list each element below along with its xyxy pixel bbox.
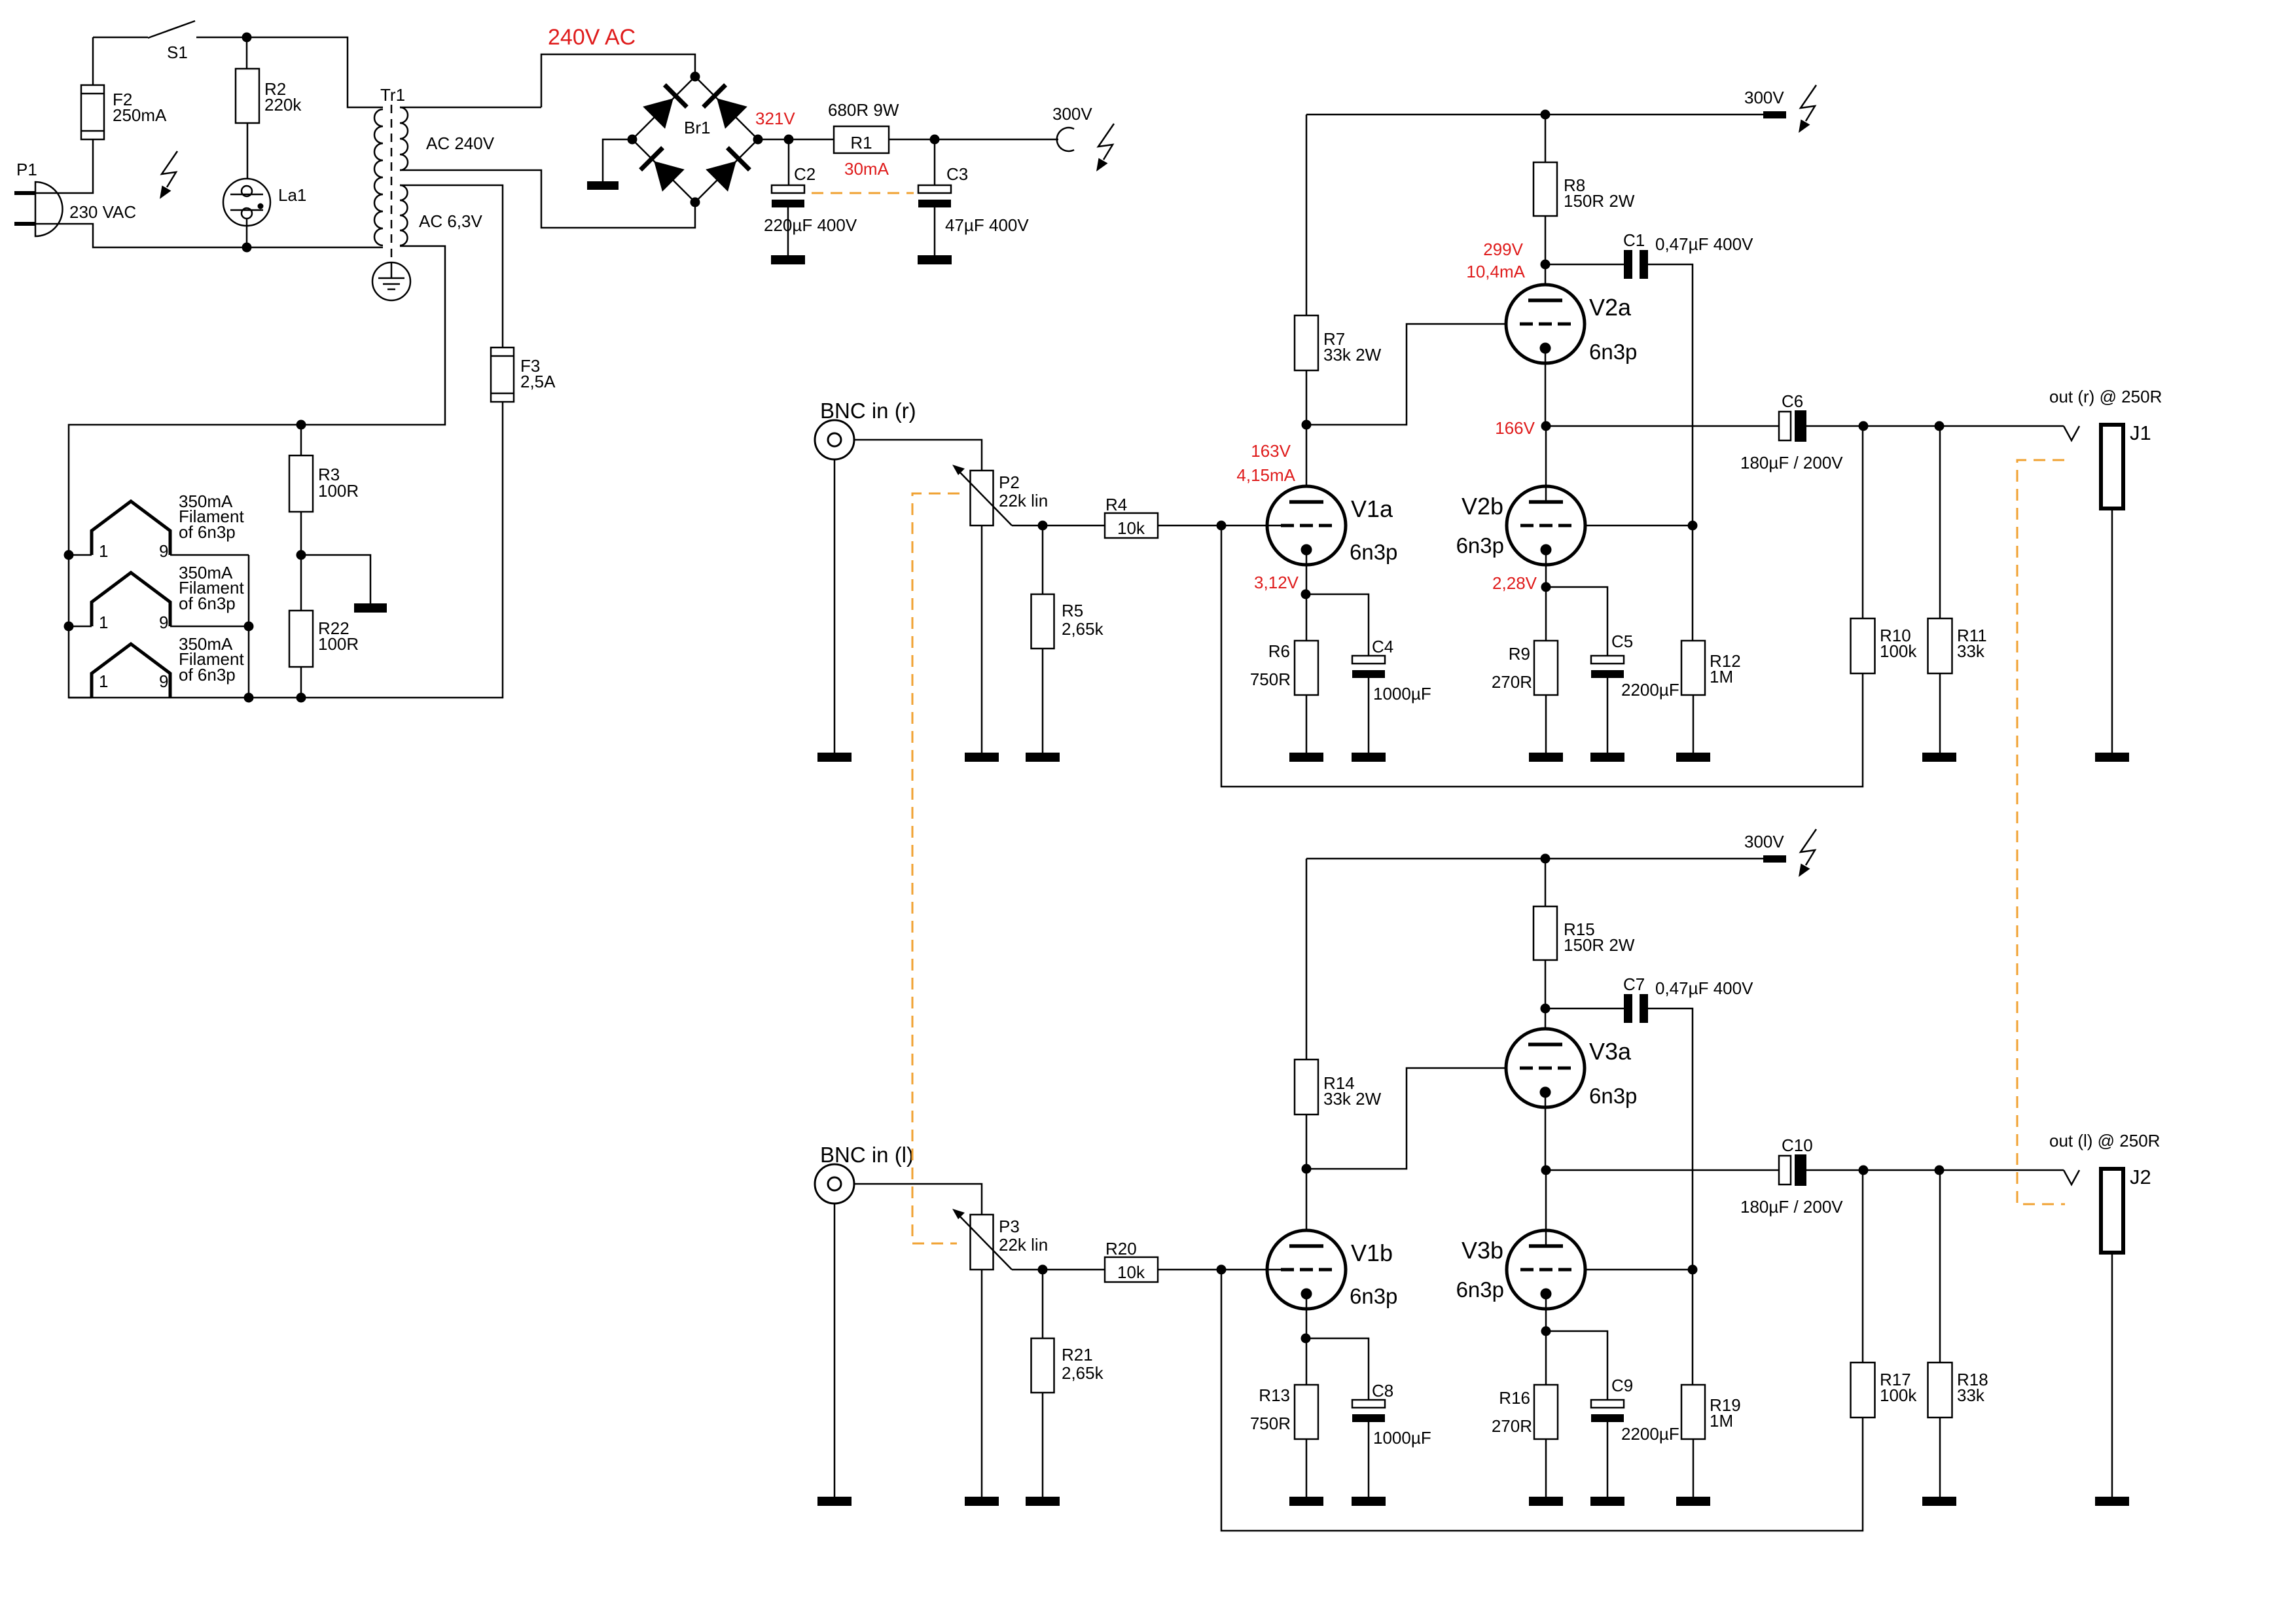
- transformer Tr1 secondary AC 240V winding: [400, 107, 408, 170]
- resistor R8: [1534, 162, 1557, 216]
- svg-text:2200µF: 2200µF: [1621, 1424, 1679, 1444]
- svg-text:300V: 300V: [1052, 104, 1092, 124]
- junction V3b grid/R19: [1688, 1265, 1698, 1275]
- wire V3b cathode: [1545, 1293, 1547, 1331]
- lamp La1: [223, 179, 270, 226]
- wire C10 to output: [1806, 1169, 2064, 1171]
- wire neutral bus: [35, 224, 383, 247]
- svg-text:of 6n3p: of 6n3p: [179, 594, 236, 613]
- connector out left: [2064, 1170, 2079, 1185]
- wire to R12: [1692, 526, 1694, 641]
- svg-text:47µF 400V: 47µF 400V: [945, 215, 1029, 235]
- diode Br1 bottom-left: [641, 148, 685, 192]
- junction heater left bus 2: [64, 622, 74, 632]
- wire R16 to ground: [1545, 1439, 1547, 1497]
- wire R7 to V1a anode: [1306, 370, 1308, 502]
- chassis link C2-C3 dashed: [812, 192, 914, 194]
- wire La1 to neutral bus: [246, 219, 248, 247]
- wire AC240V bottom to bridge: [400, 170, 695, 228]
- junction R10: [1859, 421, 1869, 431]
- svg-text:V3a: V3a: [1589, 1038, 1632, 1065]
- svg-text:270R: 270R: [1492, 1416, 1532, 1436]
- svg-text:10k: 10k: [1117, 518, 1145, 538]
- transformer Tr1 primary winding: [374, 109, 383, 245]
- ground P2: [965, 753, 999, 762]
- svg-text:6n3p: 6n3p: [1456, 1277, 1504, 1302]
- ground C3: [918, 255, 952, 264]
- svg-text:0,47µF 400V: 0,47µF 400V: [1655, 234, 1753, 254]
- svg-text:300V: 300V: [1744, 88, 1784, 107]
- wire R1 to 300V: [889, 139, 1058, 141]
- ground C4: [1352, 753, 1386, 762]
- wire grid feed V2b: [1571, 525, 1693, 527]
- ground R5: [1026, 753, 1060, 762]
- svg-text:9: 9: [159, 541, 168, 561]
- wire R5 to ground: [1042, 649, 1044, 753]
- junction R3/R22: [296, 550, 306, 560]
- svg-text:299V: 299V: [1483, 240, 1523, 259]
- svg-text:6n3p: 6n3p: [1456, 533, 1504, 558]
- junction V3a anode/C7: [1541, 1004, 1551, 1014]
- protective earth symbol: [372, 262, 410, 300]
- svg-text:2,28V: 2,28V: [1492, 573, 1537, 593]
- diode Br1 bottom-right: [706, 148, 749, 192]
- svg-text:1: 1: [99, 541, 108, 561]
- svg-text:1000µF: 1000µF: [1373, 684, 1431, 704]
- svg-text:J2: J2: [2130, 1166, 2151, 1188]
- svg-text:out (r) @ 250R: out (r) @ 250R: [2049, 387, 2162, 406]
- wire to C7: [1545, 1008, 1624, 1010]
- wire J1 to ground: [2111, 508, 2113, 753]
- svg-text:BNC in (r): BNC in (r): [820, 399, 916, 423]
- wire J2 to ground: [2111, 1253, 2113, 1497]
- junction V2b cathode: [1541, 582, 1551, 592]
- svg-text:S1: S1: [167, 43, 188, 62]
- wire to R6: [1306, 594, 1308, 641]
- svg-text:R6: R6: [1268, 641, 1290, 661]
- wiper arrow P2: [952, 465, 1012, 526]
- resistor R1: [834, 126, 889, 153]
- wire to R18: [1939, 1170, 1941, 1363]
- wire to C9: [1546, 1331, 1607, 1400]
- svg-text:C3: C3: [946, 164, 968, 184]
- node top AC live wire: [93, 37, 383, 107]
- svg-text:C4: C4: [1372, 637, 1393, 656]
- bolt 300V rail right: [1799, 85, 1816, 133]
- wire V3b anode: [1545, 1170, 1547, 1246]
- svg-text:C5: C5: [1611, 632, 1633, 651]
- wire output to C6: [1546, 425, 1779, 427]
- svg-text:V2b: V2b: [1462, 493, 1503, 520]
- output ground link dashed: [2017, 460, 2065, 1204]
- resistor R5: [1031, 594, 1054, 649]
- connector out right: [2064, 426, 2079, 440]
- wire BNC to P2: [854, 440, 982, 471]
- svg-text:P1: P1: [16, 160, 37, 179]
- wire feedback right: [1221, 526, 1863, 787]
- transformer Tr1 core: [391, 105, 393, 262]
- wire BNC ground: [834, 1204, 836, 1497]
- svg-text:R5: R5: [1062, 601, 1083, 620]
- junction V1b anode/V3a grid: [1302, 1164, 1312, 1174]
- junction heater left bus 1: [64, 550, 74, 560]
- svg-text:30mA: 30mA: [844, 159, 889, 179]
- junction R17: [1859, 1166, 1869, 1175]
- junction rail R15: [1541, 854, 1551, 864]
- wire C9 to ground: [1607, 1422, 1609, 1497]
- junction S1/R2: [242, 33, 252, 43]
- junction V1b grid/feedback: [1217, 1265, 1227, 1275]
- svg-text:180µF / 200V: 180µF / 200V: [1740, 1197, 1843, 1217]
- wire grid feed V3b: [1571, 1269, 1693, 1271]
- svg-text:220µF 400V: 220µF 400V: [764, 215, 857, 235]
- svg-text:C8: C8: [1372, 1381, 1393, 1400]
- svg-text:R13: R13: [1259, 1385, 1290, 1405]
- wire to C1: [1545, 264, 1624, 266]
- wire to R21: [1042, 1270, 1044, 1338]
- resistor R2: [236, 69, 259, 123]
- svg-text:9: 9: [159, 671, 168, 691]
- svg-text:163V: 163V: [1251, 441, 1291, 461]
- resistor R6: [1295, 641, 1318, 695]
- junction V1a grid/feedback: [1217, 521, 1227, 531]
- wire wiper to R20: [1012, 1269, 1105, 1271]
- junction R22 bottom: [296, 693, 306, 703]
- ground C2: [771, 255, 805, 264]
- triode V2a 6n3p: [1506, 285, 1585, 363]
- svg-text:750R: 750R: [1250, 669, 1291, 689]
- svg-text:100k: 100k: [1880, 1385, 1917, 1405]
- wire C5 to ground: [1607, 678, 1609, 753]
- wire BNC to P3: [854, 1184, 982, 1215]
- wiper arrow P3: [952, 1209, 1012, 1270]
- resistor R22: [289, 611, 313, 667]
- resistor R16: [1534, 1385, 1558, 1439]
- wire C8 to ground: [1368, 1422, 1370, 1497]
- capacitor C5: [1591, 656, 1624, 678]
- ground filament chassis: [354, 603, 387, 613]
- wire to R11: [1939, 426, 1941, 618]
- ground R16: [1529, 1497, 1563, 1506]
- svg-text:R20: R20: [1105, 1239, 1137, 1258]
- ground BNC left: [817, 1497, 852, 1506]
- junction R3 top: [296, 420, 306, 430]
- junction V2b grid/R12: [1688, 521, 1698, 531]
- svg-text:33k: 33k: [1957, 641, 1985, 661]
- svg-text:180µF / 200V: 180µF / 200V: [1740, 453, 1843, 473]
- wire to C2: [788, 139, 790, 185]
- wire V1b cathode: [1306, 1293, 1308, 1338]
- junction heater bus bottom: [244, 693, 254, 703]
- wire to R17: [1862, 1170, 1864, 1363]
- wire to C3: [934, 139, 936, 185]
- terminal 300V rail right: [1763, 111, 1786, 118]
- wire bridge left to ground: [603, 139, 632, 181]
- junction R11: [1935, 421, 1945, 431]
- wire R3: [300, 425, 302, 555]
- wire to R10: [1862, 426, 1864, 618]
- svg-text:C1: C1: [1623, 230, 1645, 250]
- bolt 300V PSU: [1096, 124, 1114, 171]
- junction V1b cathode: [1301, 1334, 1311, 1344]
- wire heater 1 pin 9: [170, 554, 249, 556]
- wire C3 to ground: [934, 207, 936, 255]
- svg-text:C9: C9: [1611, 1376, 1633, 1395]
- plug P1: [14, 182, 62, 236]
- wire heater right bus: [248, 555, 250, 698]
- wire C2 to ground: [787, 207, 789, 255]
- svg-text:4,15mA: 4,15mA: [1236, 465, 1295, 485]
- wire output to C10: [1546, 1169, 1779, 1171]
- wire R15 to V3a anode: [1545, 960, 1547, 1044]
- svg-text:250mA: 250mA: [113, 105, 167, 125]
- junction V3b cathode: [1541, 1327, 1551, 1336]
- svg-text:1M: 1M: [1710, 1411, 1733, 1431]
- wire R14 to V1b anode: [1306, 1115, 1308, 1246]
- resistor R4: [1105, 513, 1158, 538]
- wire C7 to V3b grid: [1648, 1008, 1693, 1270]
- svg-text:of 6n3p: of 6n3p: [179, 665, 236, 685]
- wire V2b cathode: [1545, 548, 1547, 587]
- fuse F3: [491, 348, 514, 402]
- ground C5: [1590, 753, 1624, 762]
- ground C9: [1590, 1497, 1624, 1506]
- wire grid feed V1b: [1221, 1269, 1281, 1271]
- resistor R13: [1295, 1385, 1318, 1439]
- wire P2 to ground: [981, 526, 983, 753]
- junction C2: [784, 135, 794, 145]
- svg-text:150R 2W: 150R 2W: [1564, 935, 1635, 955]
- ground R19: [1676, 1497, 1710, 1506]
- svg-text:0,47µF 400V: 0,47µF 400V: [1655, 978, 1753, 998]
- wire V2b anode: [1545, 426, 1547, 502]
- wire to R9: [1545, 587, 1547, 641]
- triode V3b 6n3p: [1507, 1230, 1585, 1309]
- capacitor C1: [1624, 250, 1648, 279]
- svg-text:100R: 100R: [318, 481, 359, 501]
- ground bridge: [587, 181, 619, 190]
- wire to V2a grid: [1306, 324, 1507, 425]
- wire to chassis ground: [301, 555, 370, 603]
- wire R8 to V2a anode: [1545, 216, 1547, 300]
- svg-text:R1: R1: [850, 133, 872, 152]
- ground R21: [1026, 1497, 1060, 1506]
- svg-text:2200µF: 2200µF: [1621, 680, 1679, 700]
- svg-text:P3: P3: [999, 1217, 1020, 1236]
- wire to R2: [246, 37, 248, 69]
- svg-text:La1: La1: [278, 185, 306, 205]
- svg-text:100R: 100R: [318, 634, 359, 654]
- svg-text:6n3p: 6n3p: [1589, 1084, 1637, 1108]
- heater filament 3 of 6n3p: [92, 644, 170, 698]
- wire rail to R8: [1545, 115, 1547, 162]
- svg-text:2,5A: 2,5A: [520, 372, 556, 391]
- mains hazard bolt: [160, 151, 177, 199]
- bridge rectifier Br1: [632, 77, 758, 202]
- ground R6: [1289, 753, 1323, 762]
- svg-text:R4: R4: [1105, 495, 1127, 514]
- wire heater 1 pin 1: [69, 554, 92, 556]
- wire grid feed V1a: [1221, 525, 1281, 527]
- wire R11 to ground: [1939, 673, 1941, 753]
- wire BNC ground: [834, 459, 836, 753]
- svg-text:of 6n3p: of 6n3p: [179, 522, 236, 542]
- ground J1: [2095, 753, 2129, 762]
- svg-text:9: 9: [159, 613, 168, 632]
- svg-text:6n3p: 6n3p: [1589, 340, 1637, 364]
- wire to R13: [1306, 1338, 1308, 1385]
- svg-text:33k: 33k: [1957, 1385, 1985, 1405]
- wire V1a cathode: [1306, 548, 1308, 594]
- wire filament loop: [69, 246, 503, 698]
- wire heater 2 pin 9: [170, 626, 249, 628]
- potentiometer P2: [971, 471, 994, 526]
- svg-text:22k lin: 22k lin: [999, 491, 1048, 510]
- resistor R9: [1534, 641, 1558, 695]
- svg-text:Tr1: Tr1: [380, 85, 405, 105]
- svg-text:AC 6,3V: AC 6,3V: [419, 211, 482, 231]
- svg-text:BNC in (l): BNC in (l): [820, 1143, 914, 1167]
- terminal 300V rail left: [1763, 855, 1786, 863]
- wire C4 to ground: [1368, 678, 1370, 753]
- wire P3 to ground: [981, 1270, 983, 1497]
- svg-text:3,12V: 3,12V: [1254, 573, 1299, 592]
- diode Br1 top-right: [704, 85, 747, 129]
- svg-text:R9: R9: [1509, 644, 1530, 664]
- resistor R3: [289, 455, 313, 512]
- triode V1b 6n3p: [1267, 1230, 1346, 1309]
- resistor R18: [1928, 1363, 1952, 1418]
- junction output node right: [1541, 421, 1551, 431]
- triode V2b 6n3p: [1507, 486, 1585, 565]
- wire bridge to R1: [758, 139, 834, 141]
- wire R13 to ground: [1306, 1439, 1308, 1497]
- wire to C8: [1306, 1338, 1369, 1400]
- ground R13: [1289, 1497, 1323, 1506]
- wire rail to R7: [1306, 115, 1308, 315]
- wire rail to R15: [1545, 859, 1547, 906]
- junction output node left: [1541, 1166, 1551, 1175]
- wire 300V rail right: [1306, 114, 1763, 116]
- heater filament 1 of 6n3p: [92, 501, 170, 555]
- node bridge bottom: [691, 198, 700, 207]
- capacitor C6: [1779, 410, 1806, 442]
- jack J1: [2101, 425, 2123, 508]
- svg-text:2,65k: 2,65k: [1062, 1363, 1104, 1383]
- ground R18: [1922, 1497, 1956, 1506]
- svg-text:230 VAC: 230 VAC: [69, 202, 136, 222]
- resistor R19: [1681, 1385, 1705, 1439]
- svg-text:J1: J1: [2130, 421, 2151, 444]
- ground C8: [1352, 1497, 1386, 1506]
- triode V3a 6n3p: [1506, 1029, 1585, 1107]
- junction V2a anode/C1: [1541, 260, 1551, 270]
- svg-text:Br1: Br1: [684, 118, 710, 137]
- resistor R17: [1851, 1363, 1875, 1418]
- capacitor C8: [1352, 1400, 1385, 1422]
- capacitor C7: [1624, 994, 1648, 1023]
- wire R4 to grid: [1158, 525, 1221, 527]
- wire heater 3 pin 1: [69, 697, 92, 699]
- resistor R15: [1534, 906, 1557, 960]
- wire rail to R14: [1306, 859, 1308, 1060]
- triode V1a 6n3p: [1267, 486, 1346, 565]
- heater filament 2 of 6n3p: [92, 573, 170, 626]
- ground R11: [1922, 753, 1956, 762]
- fuse F2: [81, 85, 104, 139]
- svg-text:C10: C10: [1782, 1135, 1813, 1155]
- wire S1 to F2: [92, 37, 94, 85]
- resistor R21: [1031, 1338, 1054, 1393]
- transformer Tr1 secondary AC 6,3V winding: [400, 185, 408, 245]
- capacitor C9: [1591, 1400, 1624, 1422]
- wire plug to F2: [35, 139, 93, 193]
- svg-text:1: 1: [99, 613, 108, 632]
- wire to V3a grid: [1306, 1068, 1507, 1169]
- svg-text:33k 2W: 33k 2W: [1323, 1089, 1382, 1109]
- junction R21: [1038, 1265, 1048, 1275]
- wire to C4: [1306, 594, 1369, 656]
- ground BNC right: [817, 753, 852, 762]
- wire R22: [300, 555, 302, 698]
- node bridge top: [691, 72, 700, 82]
- wire R18 to ground: [1939, 1418, 1941, 1497]
- svg-text:P2: P2: [999, 473, 1020, 492]
- svg-text:R16: R16: [1499, 1388, 1530, 1408]
- junction heater right bus 2: [244, 622, 254, 632]
- svg-text:220k: 220k: [264, 95, 302, 115]
- resistor R20: [1105, 1257, 1158, 1282]
- junction La1 bottom: [242, 243, 252, 253]
- resistor R7: [1295, 315, 1318, 370]
- wire C1 to V2b grid: [1648, 264, 1693, 526]
- wire V2a cathode: [1545, 347, 1547, 426]
- svg-text:6n3p: 6n3p: [1350, 1284, 1397, 1308]
- capacitor C2: [772, 185, 804, 207]
- svg-text:out (l) @ 250R: out (l) @ 250R: [2049, 1131, 2160, 1150]
- svg-text:C6: C6: [1782, 391, 1803, 411]
- svg-text:300V: 300V: [1744, 832, 1784, 851]
- wire R2 to La1: [247, 123, 249, 186]
- wire feedback left: [1221, 1270, 1863, 1531]
- resistor R14: [1295, 1060, 1318, 1115]
- resistor R12: [1681, 641, 1705, 695]
- ground J2: [2095, 1497, 2129, 1506]
- wire R6 to ground: [1306, 695, 1308, 753]
- node bridge right: [753, 135, 763, 145]
- ground P3: [965, 1497, 999, 1506]
- node bridge left: [628, 135, 637, 145]
- wire C6 to output: [1806, 425, 2064, 427]
- wire wiper to R4: [1012, 525, 1105, 527]
- junction V1a anode/V2a grid: [1302, 420, 1312, 430]
- wire to R5: [1042, 526, 1044, 594]
- wire to R19: [1692, 1270, 1694, 1385]
- svg-text:1000µF: 1000µF: [1373, 1428, 1431, 1448]
- capacitor C4: [1352, 656, 1385, 678]
- switch S1: [148, 21, 195, 38]
- svg-text:750R: 750R: [1250, 1414, 1291, 1433]
- svg-text:V3b: V3b: [1462, 1237, 1503, 1264]
- svg-text:270R: 270R: [1492, 672, 1532, 692]
- BNC connector left: [815, 1164, 854, 1204]
- svg-text:240V AC: 240V AC: [548, 25, 636, 50]
- svg-text:R21: R21: [1062, 1345, 1093, 1364]
- svg-text:22k lin: 22k lin: [999, 1235, 1048, 1255]
- bolt 300V rail left: [1799, 829, 1816, 877]
- svg-text:1M: 1M: [1710, 667, 1733, 687]
- svg-text:1: 1: [99, 671, 108, 691]
